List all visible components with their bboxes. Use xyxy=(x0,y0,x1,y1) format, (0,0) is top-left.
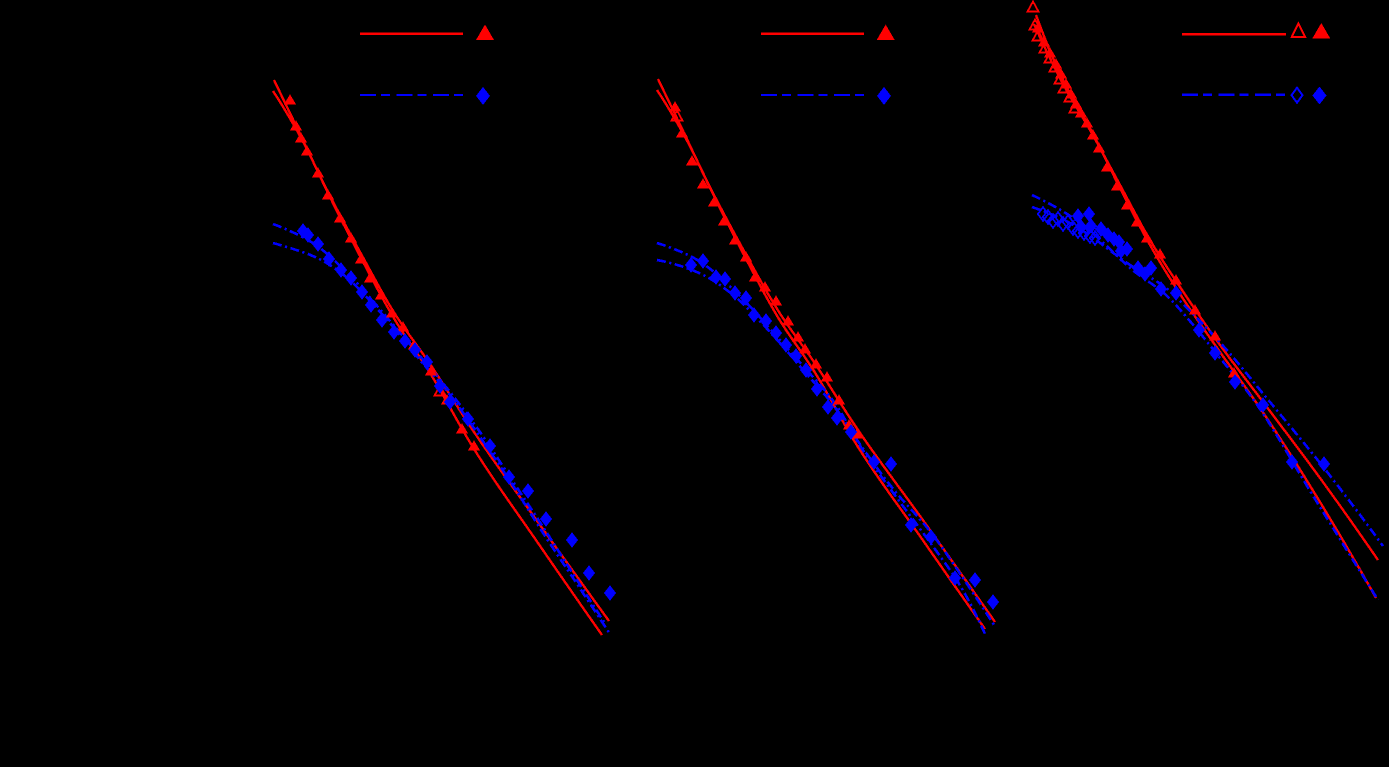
panel 2 blue dash-dot fit curve B xyxy=(657,260,994,625)
panel 2 legend filled diamond marker xyxy=(877,87,891,105)
panel 1 red fit curve B xyxy=(273,91,609,621)
panel 1 legend red solid line xyxy=(360,33,463,35)
panel 2 legend red solid line xyxy=(761,33,864,35)
panel 1 blue dash-dot fit curve A xyxy=(273,224,606,625)
panel 1 red fit curve A xyxy=(274,80,602,635)
panel 1 legend filled diamond marker xyxy=(476,87,490,105)
panel 3 red open triangle data points xyxy=(1028,2,1081,113)
panel 3 red filled triangle data points xyxy=(1032,22,1241,377)
panel 2 red filled triangle data points xyxy=(669,101,864,438)
panel 1 blue dash-dot fit curve B xyxy=(273,243,610,634)
panel 1 legend blue dash-dot line xyxy=(360,94,463,96)
panel 2 legend blue dash-dot line xyxy=(761,94,864,96)
panel 1 red open triangle data points xyxy=(435,386,446,396)
panel 3 blue open diamond data points xyxy=(1038,207,1100,245)
panel 3 legend red solid line xyxy=(1182,33,1286,35)
panel 2 legend filled triangle marker xyxy=(877,25,895,41)
panel 2 red open triangle data points xyxy=(672,111,683,121)
panel 3 legend open diamond marker xyxy=(1292,88,1303,103)
panel 3 blue dash-dot fit curve A xyxy=(1032,195,1378,600)
panel 3 legend open triangle marker xyxy=(1292,24,1306,37)
panel 2 red fit curve B xyxy=(657,90,995,622)
panel 3 legend blue dash-dot line xyxy=(1182,94,1286,96)
panel 3 legend filled triangle marker xyxy=(1312,23,1330,39)
panel 1 red filled triangle data points xyxy=(284,94,481,450)
panel 3 blue filled diamond data points xyxy=(1072,206,1330,472)
panel 1 legend filled triangle marker xyxy=(476,25,494,41)
panel 2 blue dash-dot fit curve A xyxy=(657,243,986,636)
panel 2 blue filled diamond data points xyxy=(685,253,999,610)
panel 3 red fit curve B xyxy=(1034,24,1378,560)
panel 1 blue filled diamond data points xyxy=(297,223,616,601)
panel 2 red fit curve A xyxy=(658,79,985,629)
panel 3 red fit curve A xyxy=(1036,15,1376,598)
panel 3 legend filled diamond marker xyxy=(1313,87,1327,105)
panel 3 blue dash-dot fit curve B xyxy=(1032,207,1383,546)
